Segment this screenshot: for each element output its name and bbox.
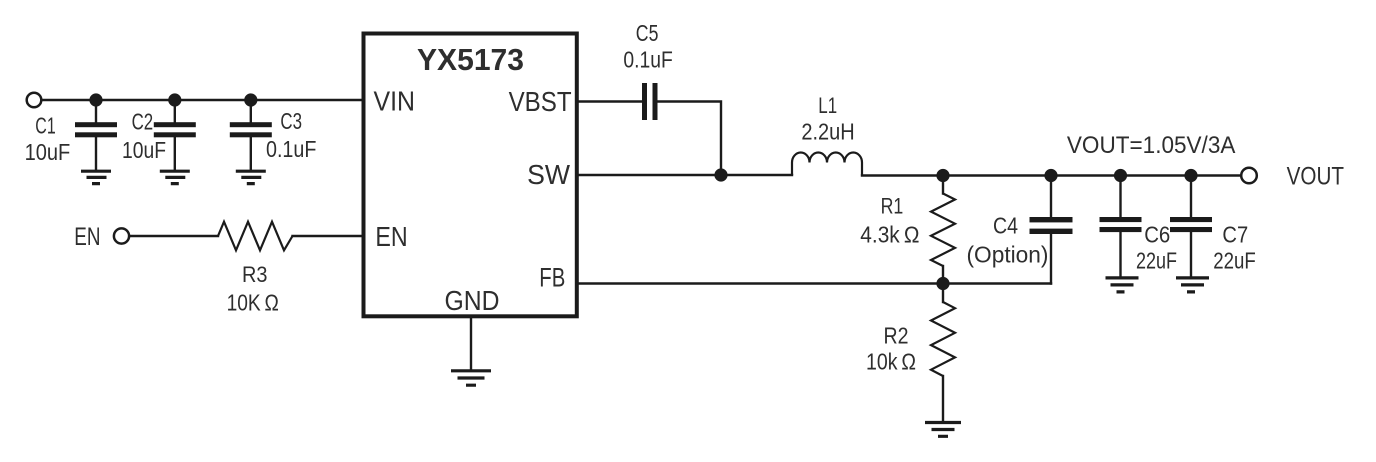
inductor L1 bbox=[792, 153, 862, 176]
svg-text:C4: C4 bbox=[993, 213, 1018, 239]
svg-text:2.2uH: 2.2uH bbox=[801, 119, 854, 145]
wire R2 top lead bbox=[942, 284, 944, 303]
wire C4 top lead bbox=[1050, 176, 1052, 218]
wire L1 to VOUT terminal bbox=[862, 174, 1241, 176]
node C6 junction bbox=[1114, 169, 1127, 182]
capacitor C2 plates bbox=[154, 122, 196, 127]
svg-text:C5: C5 bbox=[636, 20, 659, 46]
terminal EN input bbox=[114, 228, 129, 243]
capacitor C4 plates bbox=[1030, 217, 1073, 222]
svg-text:L1: L1 bbox=[818, 93, 837, 118]
svg-text:10uF: 10uF bbox=[122, 137, 166, 163]
ground below C6 bbox=[1106, 278, 1139, 292]
svg-text:4.3k Ω: 4.3k Ω bbox=[860, 222, 919, 248]
svg-text:10uF: 10uF bbox=[25, 139, 71, 165]
svg-text:R2: R2 bbox=[884, 323, 909, 349]
svg-text:EN: EN bbox=[74, 223, 100, 251]
terminal VIN input bbox=[27, 93, 42, 108]
wire R2 bottom lead bbox=[942, 376, 944, 421]
svg-text:YX5173: YX5173 bbox=[417, 42, 524, 77]
wire C1 leads bbox=[95, 100, 97, 122]
svg-text:10k Ω: 10k Ω bbox=[866, 348, 916, 374]
wire C5 to corner bbox=[658, 102, 722, 176]
capacitor C6 plates bbox=[1100, 217, 1142, 222]
ground below C1 bbox=[81, 171, 111, 183]
svg-text:10K Ω: 10K Ω bbox=[227, 290, 279, 316]
ground below IC GND pin bbox=[451, 371, 491, 385]
resistor R2 zigzag bbox=[931, 302, 955, 376]
svg-text:C2: C2 bbox=[132, 109, 154, 135]
wire C6 leads bbox=[1119, 176, 1121, 218]
node FB junction bbox=[936, 277, 949, 290]
ground below C3 bbox=[236, 171, 266, 183]
svg-text:C6: C6 bbox=[1144, 222, 1170, 248]
svg-text:C1: C1 bbox=[35, 113, 55, 139]
svg-text:C7: C7 bbox=[1222, 222, 1248, 248]
wire SW rail bbox=[577, 174, 792, 176]
node R1 top junction bbox=[936, 169, 949, 182]
wire C7 leads bbox=[1190, 176, 1192, 218]
svg-text:0.1uF: 0.1uF bbox=[266, 136, 316, 162]
svg-text:VIN: VIN bbox=[374, 86, 416, 117]
wire C3 leads bbox=[250, 100, 252, 122]
node C7 junction bbox=[1184, 169, 1197, 182]
svg-text:VOUT=1.05V/3A: VOUT=1.05V/3A bbox=[1067, 132, 1236, 159]
wire GND pin lead bbox=[470, 316, 472, 370]
wire EN right to IC bbox=[293, 235, 363, 237]
wire VIN rail bbox=[42, 99, 363, 101]
capacitor C1 plates bbox=[75, 122, 117, 127]
wire EN left bbox=[130, 235, 218, 237]
terminal VOUT output bbox=[1241, 168, 1257, 184]
svg-text:VOUT: VOUT bbox=[1287, 163, 1344, 191]
wire C2 leads bbox=[174, 100, 176, 122]
capacitor C5 plates bbox=[642, 83, 647, 120]
svg-text:22uF: 22uF bbox=[1136, 248, 1177, 274]
svg-text:SW: SW bbox=[527, 159, 570, 190]
svg-text:C3: C3 bbox=[280, 108, 302, 134]
resistor R3 zigzag bbox=[218, 222, 293, 251]
svg-text:GND: GND bbox=[445, 285, 500, 316]
ground below R2 bbox=[925, 423, 961, 437]
wire R1 top lead bbox=[942, 176, 944, 194]
svg-text:VBST: VBST bbox=[509, 86, 572, 117]
wire FB net bbox=[577, 282, 1051, 284]
ground below C7 bbox=[1176, 278, 1209, 292]
wire R1 bottom lead bbox=[942, 266, 944, 284]
svg-text:R3: R3 bbox=[242, 262, 268, 287]
wire VBST lead bbox=[577, 100, 642, 102]
wire C4 bottom lead bbox=[1050, 234, 1052, 284]
node C4 top junction bbox=[1044, 169, 1057, 182]
svg-text:EN: EN bbox=[375, 221, 407, 252]
svg-text:0.1uF: 0.1uF bbox=[623, 47, 672, 73]
svg-text:R1: R1 bbox=[881, 194, 904, 219]
svg-text:(Option): (Option) bbox=[967, 242, 1049, 268]
capacitor C7 plates bbox=[1170, 217, 1212, 222]
resistor R1 zigzag bbox=[931, 194, 955, 267]
node SW/C5 junction bbox=[714, 168, 727, 181]
capacitor C3 plates bbox=[230, 122, 272, 127]
ground below C2 bbox=[160, 171, 190, 183]
svg-text:FB: FB bbox=[539, 263, 565, 293]
svg-text:22uF: 22uF bbox=[1213, 248, 1256, 274]
IC U1 YX5173 box bbox=[364, 34, 577, 317]
node junction dots on VIN rail bbox=[89, 93, 102, 106]
